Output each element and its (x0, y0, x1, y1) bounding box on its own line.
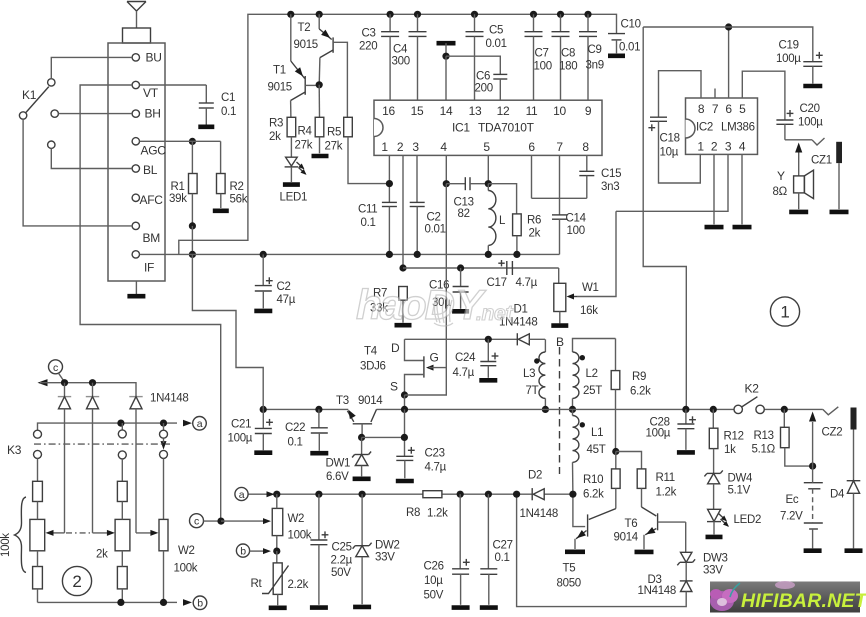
ground (W1) (551, 323, 568, 328)
svg-text:1N4148: 1N4148 (520, 508, 558, 520)
svg-text:100: 100 (567, 225, 585, 237)
node pin5 junction (485, 180, 492, 187)
node b-pot2 (117, 599, 124, 606)
wire AGC row (140, 140, 221, 142)
svg-text:IC2: IC2 (696, 122, 713, 134)
svg-text:2.2k: 2.2k (288, 579, 309, 591)
inductor L (488, 184, 506, 255)
resistor R11 (616, 452, 677, 508)
node AGC junction (189, 138, 196, 145)
svg-text:4: 4 (739, 140, 746, 154)
potentiometer W2 100k (gang 3) (136, 519, 198, 602)
svg-text:100k: 100k (288, 530, 312, 542)
op-amp IC1 TDA7010T (374, 100, 602, 155)
svg-text:56k: 56k (230, 194, 248, 206)
svg-text:3n9: 3n9 (586, 60, 604, 72)
svg-text:C24: C24 (455, 352, 476, 364)
svg-text:39k: 39k (169, 193, 187, 205)
wire audio supply rail (643, 27, 813, 61)
node C16 junction (457, 264, 464, 271)
svg-text:D1: D1 (514, 304, 528, 316)
wire c line (38, 379, 137, 396)
switch K3 (7, 423, 170, 459)
svg-text:7: 7 (712, 102, 719, 116)
resistor R7 (370, 287, 407, 323)
svg-text:C6: C6 (476, 71, 490, 83)
svg-text:DW3: DW3 (703, 553, 728, 565)
ground (C23) (396, 479, 414, 484)
svg-text:4: 4 (440, 140, 447, 154)
svg-text:C19: C19 (779, 40, 799, 52)
potentiometer 2k (gang 2) (93, 481, 130, 602)
resistor R9 (611, 339, 651, 452)
svg-text:27k: 27k (295, 140, 313, 152)
svg-text:C18: C18 (660, 133, 680, 145)
transistor T2 9015 (294, 14, 348, 117)
svg-text:82: 82 (458, 208, 470, 220)
svg-text:1.2k: 1.2k (427, 508, 448, 520)
diode D3 1N4148 (638, 574, 693, 597)
op-amp IC2 LM386 (686, 98, 758, 154)
svg-text:DW4: DW4 (728, 473, 754, 485)
ground (C27) (480, 605, 498, 610)
transistor T6 9014 (614, 507, 686, 549)
zener DW3 33V (677, 522, 727, 581)
ground (Ec) (804, 548, 822, 553)
svg-text:T6: T6 (625, 518, 638, 530)
svg-text:IF: IF (144, 261, 154, 275)
node pin4 junction (443, 180, 450, 187)
potentiometer W1 16k (554, 268, 599, 323)
resistor R2 (217, 141, 248, 208)
node row-L1L2 (569, 406, 576, 413)
svg-text:BU: BU (146, 51, 162, 65)
svg-text:C21: C21 (231, 419, 251, 431)
svg-text:T4: T4 (364, 346, 378, 358)
terminal BL (132, 163, 158, 177)
label subcircuit 2 (62, 566, 91, 595)
node row-C27 (485, 491, 492, 498)
svg-text:7: 7 (556, 140, 563, 154)
svg-text:BL: BL (143, 163, 158, 177)
svg-text:180: 180 (559, 61, 577, 73)
ground (D4) (845, 548, 863, 553)
svg-text:0.1: 0.1 (221, 106, 236, 118)
wire K3 to pots (38, 458, 164, 519)
terminal VT (132, 81, 159, 100)
node a row circled (193, 417, 207, 431)
svg-text:1: 1 (381, 140, 388, 154)
capacitor C25 (310, 494, 352, 605)
node rail-C9 (584, 11, 591, 18)
svg-text:BM: BM (143, 231, 161, 245)
svg-text:R4: R4 (298, 126, 313, 138)
svg-text:1N4148: 1N4148 (638, 585, 676, 597)
terminal BU (132, 51, 161, 65)
node row-T5base (569, 491, 576, 498)
svg-text:100µ: 100µ (228, 433, 253, 445)
ground (Rt) (269, 605, 287, 610)
svg-text:C11: C11 (358, 204, 377, 216)
svg-text:11: 11 (526, 104, 538, 118)
wire K1-BM (23, 119, 132, 226)
svg-text:C14: C14 (566, 213, 587, 225)
tuner block (BU..IF) (108, 43, 165, 281)
svg-text:2: 2 (397, 140, 404, 154)
transistor T4 3DJ6 (360, 339, 446, 395)
svg-text:c: c (194, 516, 199, 528)
node IF-R6 (513, 251, 520, 258)
capacitor C20 (742, 71, 823, 140)
svg-text:3n3: 3n3 (601, 181, 619, 193)
node rail-T1 (287, 11, 294, 18)
wire a row (38, 420, 193, 431)
ground (C21) (254, 450, 272, 455)
resistor R13 (752, 409, 813, 466)
svg-text:T5: T5 (563, 563, 576, 575)
capacitor C27 (480, 494, 512, 605)
ground (DW1) (353, 476, 371, 481)
node row-C22 (315, 406, 322, 413)
svg-text:K2: K2 (745, 382, 760, 396)
wire audio out (785, 138, 825, 145)
connector CZ1 (811, 142, 842, 209)
svg-text:L1: L1 (591, 427, 603, 439)
svg-text:6: 6 (725, 102, 732, 116)
svg-text:R10: R10 (583, 474, 603, 486)
wire VCC rail (179, 14, 617, 254)
svg-text:R12: R12 (724, 431, 744, 443)
wire gate net (pin4 column) (405, 184, 447, 395)
ground (CZ1) (830, 210, 849, 215)
wire pin14 (445, 56, 447, 100)
capacitor C22 (285, 409, 328, 450)
wire pin2 gnd (713, 154, 715, 224)
switch K2 (734, 382, 764, 414)
svg-text:9015: 9015 (268, 82, 292, 94)
node T4 source junction (401, 391, 408, 398)
wire main supply row (263, 408, 823, 410)
svg-text:D: D (391, 341, 400, 355)
capacitor C10 (608, 19, 641, 54)
ground (C1) (198, 125, 214, 130)
capacitor C3 (359, 14, 399, 100)
svg-text:C17: C17 (487, 277, 507, 289)
node pin14 junction (442, 53, 449, 60)
node row-R12 (710, 406, 717, 413)
wire T3 base row (362, 436, 405, 438)
ground (LED1) (283, 182, 300, 187)
ground (LED2) (706, 535, 723, 540)
resistor R6 (488, 184, 541, 255)
svg-text:S: S (390, 380, 398, 394)
node rail2-pin6 (725, 23, 732, 30)
svg-text:C23: C23 (425, 448, 445, 460)
svg-text:0.1: 0.1 (361, 217, 376, 229)
svg-text:50V: 50V (424, 590, 444, 602)
svg-text:T1: T1 (273, 65, 286, 77)
svg-text:0.1: 0.1 (288, 437, 303, 449)
svg-text:9: 9 (585, 104, 592, 118)
node row-K2out (781, 406, 788, 413)
inductor L1 45T (573, 409, 606, 494)
svg-text:3: 3 (725, 140, 732, 154)
svg-text:b: b (240, 546, 246, 558)
svg-text:1.2k: 1.2k (656, 487, 677, 499)
wire oscillator output row (405, 338, 518, 340)
switch K1 (19, 79, 58, 149)
svg-text:4.7µ: 4.7µ (516, 277, 538, 289)
svg-text:5.1V: 5.1V (728, 485, 751, 497)
svg-text:2k: 2k (96, 549, 108, 561)
node c-d2 (89, 379, 96, 386)
node R9-R10 junction (612, 448, 619, 455)
ground (R4) (312, 154, 329, 159)
ground (C16) (452, 309, 469, 314)
node Ec junction (809, 463, 816, 470)
svg-text:DW2: DW2 (375, 540, 400, 552)
node a (circled) (235, 487, 275, 500)
svg-text:L3: L3 (523, 368, 535, 380)
wire IF row (140, 253, 560, 255)
ground (C25) (310, 605, 328, 610)
svg-text:1: 1 (697, 140, 704, 154)
zener DW2 33V (353, 494, 400, 604)
svg-text:VT: VT (143, 86, 159, 100)
svg-text:C2: C2 (277, 281, 291, 293)
svg-text:TDA7010T: TDA7010T (478, 121, 535, 135)
node row-return (513, 491, 520, 498)
wire D1-L3 (544, 339, 546, 352)
svg-text:BH: BH (145, 107, 161, 121)
svg-text:33V: 33V (375, 552, 395, 564)
diode D2 1N4148 (520, 470, 558, 521)
svg-text:0.01: 0.01 (619, 42, 640, 54)
svg-text:LM386: LM386 (721, 122, 755, 134)
svg-text:C25: C25 (332, 542, 352, 554)
node row-L3 (542, 406, 549, 413)
svg-text:5.1Ω: 5.1Ω (752, 444, 776, 456)
ground (C10) (608, 53, 625, 58)
resistor R3 (269, 117, 296, 157)
node b row circled (193, 596, 207, 610)
svg-text:5: 5 (739, 102, 746, 116)
wire BM-IF link (191, 226, 193, 255)
svg-text:Ec: Ec (786, 494, 799, 506)
node IF-L (485, 251, 492, 258)
wire pin7 stub (714, 89, 716, 99)
node S column row junction (401, 406, 408, 413)
svg-text:R9: R9 (632, 371, 646, 383)
capacitor C2 0.01 (410, 202, 446, 254)
svg-text:R6: R6 (527, 215, 541, 227)
svg-text:C20: C20 (800, 103, 820, 115)
svg-text:K1: K1 (22, 88, 37, 102)
svg-text:a: a (239, 489, 245, 501)
diode D1 1N4148 (499, 304, 545, 346)
capacitor C28 (646, 409, 696, 450)
phase dot L2 (580, 355, 585, 360)
svg-text:8: 8 (582, 140, 589, 154)
resistor R10 (583, 452, 620, 509)
transistor T5 8050 (557, 494, 616, 589)
svg-text:2: 2 (711, 140, 718, 154)
svg-text:C7: C7 (535, 48, 549, 60)
svg-text:R11: R11 (656, 472, 675, 484)
svg-text:10µ: 10µ (424, 575, 443, 587)
svg-text:100k: 100k (174, 563, 198, 575)
wire pin4 (445, 155, 447, 183)
svg-text:2k: 2k (269, 131, 281, 143)
wire pin6 (531, 155, 533, 198)
node IF-C2 junction (260, 251, 267, 258)
svg-text:2: 2 (72, 572, 81, 591)
node pin1-R5 junction (386, 180, 393, 187)
svg-text:100: 100 (534, 61, 552, 73)
svg-text:R1: R1 (171, 181, 185, 193)
thermistor Rt 2.2k (251, 551, 309, 605)
svg-text:LED2: LED2 (734, 514, 762, 526)
terminal AFC (132, 193, 163, 207)
svg-text:C4: C4 (393, 44, 408, 56)
svg-text:27k: 27k (325, 141, 343, 153)
resistor R4 (295, 85, 324, 154)
node T3 base junction (358, 434, 365, 441)
svg-text:9015: 9015 (294, 39, 318, 51)
node IF-C2b (414, 251, 421, 258)
svg-text:C3: C3 (362, 28, 376, 40)
svg-text:5: 5 (483, 140, 490, 154)
svg-text:45T: 45T (587, 444, 606, 456)
capacitor C6 (446, 56, 507, 100)
terminal IF (132, 251, 154, 275)
terminal BM (132, 222, 160, 245)
node BM junction (189, 222, 196, 229)
node row-DW2 (359, 491, 366, 498)
capacitor C1 (140, 85, 237, 125)
svg-text:D2: D2 (528, 470, 542, 482)
resistor R5 (325, 117, 390, 183)
ground (C22) (310, 451, 328, 456)
wire b row (38, 599, 193, 606)
ground (DW2) (353, 605, 371, 610)
svg-text:C10: C10 (621, 19, 641, 31)
node rail-C3 (387, 11, 394, 18)
capacitor C21 (192, 254, 273, 450)
wire pin7 (559, 155, 561, 214)
wire pin3 (416, 155, 418, 202)
wire bottom return (517, 494, 687, 606)
node row-C25 (315, 491, 322, 498)
svg-text:2k: 2k (529, 228, 541, 240)
svg-text:D4: D4 (830, 489, 845, 501)
node row-C28 (682, 406, 689, 413)
svg-text:0.01: 0.01 (425, 224, 446, 236)
ground (speaker) (789, 210, 808, 215)
node C23 junction (401, 434, 408, 441)
wire source down (404, 395, 406, 409)
transformer core (556, 335, 564, 474)
antenna coupler block (123, 28, 151, 43)
svg-text:12: 12 (497, 104, 510, 118)
capacitor C13 (446, 177, 488, 220)
svg-text:AGC: AGC (141, 144, 167, 158)
capacitor C7 (525, 14, 552, 100)
capacitor C11 (358, 202, 397, 254)
diode 1N4148 (d1) (58, 383, 71, 533)
svg-text:7.2V: 7.2V (780, 511, 803, 523)
speaker Y 8ohm (773, 143, 814, 210)
svg-text:C5: C5 (489, 25, 503, 37)
svg-text:C2: C2 (427, 212, 441, 224)
svg-text:G: G (430, 351, 439, 365)
svg-text:L2: L2 (586, 368, 598, 380)
svg-text:13: 13 (469, 104, 482, 118)
svg-text:C15: C15 (601, 168, 621, 180)
svg-text:R13: R13 (754, 430, 774, 442)
node row-C21 (260, 406, 267, 413)
node c-d1 (61, 379, 68, 386)
resistor R1 (169, 141, 197, 226)
brace and 100k label (0, 497, 26, 573)
transistor T3 9014 (336, 395, 383, 437)
node rail-C5 (471, 11, 478, 18)
node c-junction (217, 518, 224, 525)
svg-text:DW1: DW1 (326, 458, 351, 470)
node pin2-R7 junction (399, 264, 406, 271)
svg-text:10: 10 (553, 104, 566, 118)
svg-text:8050: 8050 (557, 578, 581, 590)
wire pin6-pin7-C15 link (532, 197, 587, 199)
node rail-C4 (414, 11, 421, 18)
svg-text:6: 6 (528, 140, 535, 154)
svg-text:50V: 50V (331, 567, 351, 579)
svg-text:AFC: AFC (140, 193, 164, 207)
svg-text:4.7µ: 4.7µ (453, 367, 475, 379)
wire rail to row (643, 27, 686, 409)
svg-text:a: a (197, 418, 203, 430)
antenna (127, 2, 146, 29)
svg-text:CZ1: CZ1 (811, 155, 832, 167)
node IF junction (189, 251, 196, 258)
wire pin5 (487, 155, 489, 183)
wire BH-K1 (58, 113, 132, 115)
node row-C26 (457, 491, 464, 498)
capacitor C19 (776, 40, 823, 84)
capacitor C4 (392, 14, 427, 100)
diode 1N4148 (d3) (129, 393, 188, 533)
capacitor C8 (552, 14, 578, 100)
capacitor C15 (579, 155, 621, 198)
potentiometer W2 100k (fine) (221, 494, 312, 551)
svg-text:100µ: 100µ (798, 117, 823, 129)
svg-text:14: 14 (440, 104, 453, 118)
ground (C26) (452, 605, 470, 610)
svg-text:16: 16 (382, 104, 395, 118)
svg-text:R8: R8 (406, 507, 420, 519)
svg-text:16k: 16k (580, 305, 598, 317)
svg-text:300: 300 (392, 56, 410, 68)
svg-text:Y: Y (777, 169, 785, 183)
capacitor C17 (487, 260, 538, 289)
node IF-C11 (386, 251, 393, 258)
svg-text:C8: C8 (561, 48, 575, 60)
potentiometer 100k (gang 1) (30, 481, 65, 602)
inductor L3 7T (523, 352, 545, 409)
node T1 base junction (316, 81, 323, 88)
wire pin4 gnd (741, 154, 743, 224)
ground (C2 47u) (254, 309, 272, 314)
